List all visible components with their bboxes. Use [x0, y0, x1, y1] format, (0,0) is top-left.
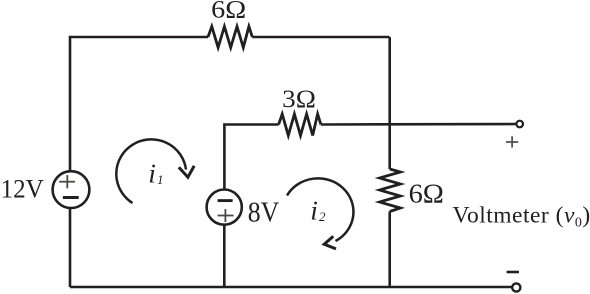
minus sign at output terminal	[507, 271, 519, 274]
mesh current i1 arc	[116, 139, 186, 203]
wire middle from 3ohm to plus terminal	[321, 123, 517, 126]
svg-text:i1: i1	[148, 158, 163, 189]
polarity plus inside 12V source	[59, 175, 75, 188]
wire left branch lower (12V to bottom)	[69, 208, 72, 288]
resistor R3 6ohm vertical zigzag	[380, 169, 401, 212]
resistor R2 3ohm zigzag	[279, 114, 321, 136]
polarity plus inside 8V source	[218, 209, 234, 222]
wire top-right from resistor to right corner	[252, 36, 389, 39]
terminal T1 plus output circle	[516, 121, 523, 128]
plus sign at output terminal	[506, 136, 518, 147]
voltage source V2 8V circle	[207, 190, 242, 225]
wire from 8V source to bottom rail	[223, 224, 226, 287]
arrowhead of i1	[179, 166, 194, 177]
svg-text:6Ω: 6Ω	[211, 0, 246, 24]
voltage source V1 12V circle	[53, 171, 90, 208]
wire right branch upper	[388, 37, 391, 169]
terminal T2 minus output circle	[512, 283, 520, 291]
polarity minus inside 12V source	[63, 196, 79, 199]
svg-text:8V: 8V	[248, 198, 279, 229]
polarity minus inside 8V source	[218, 199, 233, 202]
wire top-left from node A to resistor 6ohm	[70, 37, 208, 172]
svg-text:i2: i2	[310, 195, 326, 226]
svg-text:6Ω: 6Ω	[409, 179, 444, 209]
resistor R1 6ohm top zigzag	[208, 27, 252, 48]
svg-text:3Ω: 3Ω	[282, 84, 316, 113]
arrowhead of i2	[324, 236, 336, 249]
mesh current i2 arc	[287, 178, 353, 241]
svg-text:Voltmeter (ν0): Voltmeter (ν0)	[453, 203, 590, 231]
wire middle from junction to resistor 3ohm	[224, 125, 278, 191]
wire right branch lower	[388, 212, 391, 288]
wire bottom rail	[70, 286, 512, 289]
svg-text:12V: 12V	[1, 174, 44, 204]
